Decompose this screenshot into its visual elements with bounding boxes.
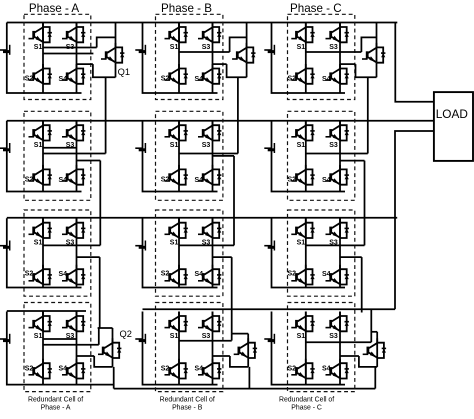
svg-text:S4: S4 [195,271,204,278]
IGBT S1 of cell C4 [291,312,314,332]
wire cell B2 input line [179,153,238,155]
svg-text:S3: S3 [202,333,211,340]
enclosure cell B3 (dashed box) [156,210,223,296]
wire bypass B4 collector lead [247,334,249,343]
IGBT S2 of cell C3 [291,265,314,285]
svg-text:S4: S4 [195,366,204,373]
enclosure cell A4 (dashed box) [24,303,91,392]
IGBT S4 of cell C3 [326,265,349,285]
wire bypass B4 collector bracket top [232,333,249,335]
wire bypass B4 emitter lead [247,358,249,367]
IGBT S2 of cell B1 [165,64,188,84]
battery VB1 (DC source) [135,45,145,55]
wire chain B3 to B4 (through row-4 rail) [231,257,233,334]
wire cell B3 right leg (S3-S4) [212,218,214,287]
svg-text:S1: S1 [34,240,43,247]
wire cell B1 left leg (S1-S2) [178,23,180,94]
wire cell A3 left rail + bottom rail [7,218,82,287]
wire cell B4 left leg (S1-S2) [178,312,180,385]
svg-text:S4: S4 [59,366,68,373]
IGBT S1 of cell B1 [165,23,188,43]
IGBT S3 of cell C2 [326,121,349,141]
svg-text:S4: S4 [322,76,331,83]
IGBT S1 of cell A3 [29,218,52,238]
wire cell B3 output line [213,256,232,258]
wire chain B1 to B2 [237,77,239,153]
bypass IGBT Q1 (phase A top) [101,43,124,63]
wire chain C1 to C2 [367,77,369,153]
wire cell B1 left rail + bottom rail [143,23,218,94]
wire cell C4 right leg (S3-S4) [339,312,341,385]
wire bypass C4 output to return bus [374,367,376,389]
LOAD box [434,92,473,161]
wire bypass A1 collector bracket [97,37,116,47]
IGBT S2 of cell C4 [291,359,314,379]
IGBT S3 of cell A1 [62,23,85,43]
svg-text:S1: S1 [170,142,179,149]
IGBT S4 of cell B1 [198,64,221,84]
svg-text:S2: S2 [25,76,34,83]
svg-text:S1: S1 [34,142,43,149]
wire cell C2 left rail + bottom rail [272,121,346,192]
wire chain C2 to C3 [364,161,366,246]
wire cell C2 right leg (S3-S4) [339,121,341,192]
IGBT S3 of cell B1 [198,23,221,43]
svg-text:S3: S3 [202,142,211,149]
svg-text:S2: S2 [25,365,34,372]
battery VC1 (DC source) [264,45,274,55]
wire row-1 top rail / phase-A output to LOAD [7,23,434,102]
IGBT S1 of cell C1 [291,23,314,43]
svg-text:S4: S4 [59,177,68,184]
wire bypass B1 collector bracket [230,37,247,52]
wire cell A1 left rail + bottom rail [7,23,82,94]
bypass IGBT (phase C top) [362,43,385,63]
wire bypass A1 emitter lead [115,63,117,78]
wire bypass A4 output to return bus [113,367,115,389]
svg-text:Q2: Q2 [120,329,132,339]
svg-text:S2: S2 [288,270,297,277]
wire bypass A1 collector drop from rail [115,23,117,48]
IGBT S1 of cell B4 [165,312,188,332]
bypass IGBT Q2 (phase A bottom) [98,338,121,358]
svg-text:Redundant Cell of: Redundant Cell of [279,396,334,403]
wire row-2 top rail / phase-B output to LOAD [7,120,434,122]
IGBT S4 of cell A1 [62,64,85,84]
wire cell A1 left leg (S1-S2) [42,23,44,94]
wire cell A1 right leg (S3-S4) [76,23,78,94]
wire bypass C1 collector drop from rail [376,23,378,48]
wire cell A2 left leg (S1-S2) [42,121,44,192]
IGBT S4 of cell C4 [326,359,349,379]
svg-text:S4: S4 [322,366,331,373]
svg-text:S2: S2 [25,270,34,277]
svg-text:S1: S1 [34,44,43,51]
IGBT S3 of cell C3 [326,218,349,238]
wire cell A1 mid line B [43,53,93,55]
enclosure cell C3 (dashed box) [288,210,355,296]
IGBT S2 of cell A2 [29,165,52,185]
svg-text:Redundant Cell of: Redundant Cell of [160,396,215,403]
bypass IGBT (phase B top) [232,43,255,63]
wire bypass B4 output to return bus [248,367,250,389]
svg-text:S2: S2 [161,177,170,184]
IGBT S3 of cell A4 [62,312,85,332]
battery VC4 (DC source) [264,334,274,344]
wire cell C4 mid rail to bypass collector [306,341,372,343]
svg-text:S3: S3 [329,333,338,340]
wire cell A3 left leg (S1-S2) [42,218,44,287]
battery VC2 (DC source) [264,143,274,153]
wire cell A3 input line [43,244,100,246]
wire cell C1 right leg (S3-S4) [339,23,341,94]
svg-text:S2: S2 [161,365,170,372]
svg-text:S4: S4 [195,177,204,184]
wire cell C4 left rail + bottom rail [272,312,346,385]
svg-text:S4: S4 [322,177,331,184]
IGBT S4 of cell A4 [62,359,85,379]
wire bypass C4 emitter lead [376,358,378,367]
enclosure cell C2 (dashed box) [288,111,355,200]
svg-text:S1: S1 [34,333,43,340]
svg-text:S1: S1 [170,44,179,51]
battery VA1 (DC source) [0,45,10,55]
wire cell C3 output line [340,256,362,258]
wire cell B4 left rail + bottom rail [143,312,218,385]
wire cell A2 mid rail [43,147,77,149]
wire chain C3 to C4 (to row-4 rail) [361,257,363,312]
wire cell A1 output line (S3/S4 node) [77,63,93,65]
wire cell C2 input line [306,153,368,155]
svg-text:S3: S3 [329,44,338,51]
svg-text:S2: S2 [161,76,170,83]
wire bypass C1 emitter lead [376,63,378,78]
wire cell A3 right leg (S3-S4) [76,218,78,287]
wire cell B2 left rail + bottom rail [143,121,218,192]
svg-text:Phase - C: Phase - C [290,2,342,15]
wire cell A4 left leg (S1-S2) [42,312,44,385]
enclosure cell A2 (dashed box) [24,111,91,200]
wire cell C1 output line (S3/S4 node) [340,63,356,65]
wire cell B4 right leg (S3-S4) [212,312,214,385]
enclosure cell B2 (dashed box) [156,111,223,200]
svg-text:Q1: Q1 [118,67,130,77]
wire cell B3 left leg (S1-S2) [178,218,180,287]
wire row-4 top rail (phases B-C) [143,308,396,310]
IGBT S2 of cell B2 [165,165,188,185]
wire cell B1 output line (S3/S4 node) [213,63,227,65]
wire cell C2 output line [340,160,365,162]
enclosure cell A1 (dashed box) [24,14,91,99]
svg-text:S1: S1 [297,142,306,149]
enclosure cell A3 (dashed box) [24,210,91,296]
wire cell C3 left rail + bottom rail [272,218,346,287]
wire cell A4 left rail + bottom rail [7,312,114,385]
svg-text:S4: S4 [59,271,68,278]
IGBT S2 of cell C2 [291,165,314,185]
wire bypass B1 collector drop from rail [246,23,248,48]
IGBT S3 of cell A3 [62,218,85,238]
svg-text:S3: S3 [202,44,211,51]
wire cell B4 mid rail to bypass collector [179,340,232,342]
svg-text:Phase - C: Phase - C [291,404,322,411]
wire cell A4 line to bypass collector [43,344,99,346]
battery VC3 (DC source) [264,241,274,251]
bypass IGBT (phase C bottom) [363,338,386,358]
wire chain A3 to A4 [99,257,101,328]
wire row-3 top rail [7,217,397,219]
IGBT S4 of cell B4 [198,359,221,379]
IGBT S2 of cell C1 [291,64,314,84]
wire cell B2 right leg (S3-S4) [212,121,214,192]
wire cell B4 line to bypass emitter [213,355,230,357]
IGBT S1 of cell A4 [29,312,52,332]
svg-text:S4: S4 [322,271,331,278]
svg-text:Redundant Cell of: Redundant Cell of [28,396,83,403]
IGBT S1 of cell C2 [291,121,314,141]
bypass IGBT (phase B bottom) [234,338,257,358]
svg-text:S4: S4 [195,76,204,83]
wire cell A2 left rail + bottom rail [7,121,82,192]
svg-text:S2: S2 [288,365,297,372]
enclosure cell B4 (dashed box) [156,303,223,392]
wire cell A2 output line [77,160,101,162]
svg-text:S1: S1 [297,44,306,51]
wire cell C1 left leg (S1-S2) [305,23,307,94]
svg-text:Phase - B: Phase - B [172,404,203,411]
IGBT S1 of cell C3 [291,218,314,238]
wire bottom return bus [114,388,376,390]
wire cell B3 input line [179,244,234,246]
wire bypass B4 emitter bracket [230,356,248,367]
wire cell C4 line to bypass emitter [340,355,359,357]
battery VA2 (DC source) [0,143,10,153]
svg-text:S1: S1 [297,333,306,340]
IGBT S4 of cell A3 [62,265,85,285]
wire chain A1 to A2 [105,77,107,153]
wire chain A2 to A3 [99,161,101,246]
svg-text:Phase - A: Phase - A [41,404,71,411]
battery VB3 (DC source) [135,241,145,251]
IGBT S4 of cell B2 [198,165,221,185]
wire cell C3 input line [306,244,365,246]
IGBT S1 of cell A2 [29,121,52,141]
svg-text:S3: S3 [329,142,338,149]
wire cell B2 left leg (S1-S2) [178,121,180,192]
wire bypass A1 emitter bracket [93,64,116,77]
wire cell C3 left leg (S1-S2) [305,218,307,287]
IGBT S4 of cell B3 [198,265,221,285]
IGBT S2 of cell B3 [165,265,188,285]
wire cell A4 mid rail [43,338,77,340]
svg-text:S1: S1 [170,240,179,247]
wire bypass A4 collector bracket top [98,327,113,329]
svg-text:S4: S4 [59,76,68,83]
wire bypass B1 emitter bracket [227,64,247,77]
wire cell A3 output line [77,256,100,258]
wire cell B2 output line [213,155,235,157]
IGBT S3 of cell C1 [326,23,349,43]
wire cell C4 left leg (S1-S2) [305,312,307,385]
svg-text:Phase - B: Phase - B [161,2,212,15]
IGBT S2 of cell B4 [165,359,188,379]
wire cell C1 left rail + bottom rail [272,23,346,94]
svg-text:S2: S2 [25,177,34,184]
wire bypass A4 collector bracket vert [98,328,100,345]
enclosure cell C4 (dashed box) [288,303,355,392]
wire bypass C1 emitter bracket [356,64,377,77]
svg-text:S1: S1 [297,240,306,247]
IGBT S3 of cell C4 [326,312,349,332]
svg-text:Phase - A: Phase - A [29,2,80,15]
IGBT S1 of cell B3 [165,218,188,238]
IGBT S2 of cell A3 [29,265,52,285]
battery VA3 (DC source) [0,241,10,251]
IGBT S3 of cell B3 [198,218,221,238]
wire bypass A4 emitter lead [112,358,114,367]
wire cell C2 left leg (S1-S2) [305,121,307,192]
svg-text:S2: S2 [161,270,170,277]
wire cell C3 right leg (S3-S4) [339,218,341,287]
wire cell A1 mid line (S1/S2 node to bypass) [43,47,97,49]
battery VB2 (DC source) [135,143,145,153]
wire bypass C1 collector bracket [361,37,376,52]
IGBT S3 of cell A2 [62,121,85,141]
IGBT S3 of cell B2 [198,121,221,141]
wire bypass A4 emitter bracket [94,356,112,367]
IGBT S2 of cell A1 [29,64,52,84]
wire bypass B4 collector bracket vert [231,334,233,341]
wire bypass C4 emitter bracket [359,356,377,367]
battery VA4 (DC source) [0,334,10,344]
wire row-4 top rail (phase A) [7,310,86,312]
wire cell C1 mid line (S1/S2 node to bypass) [306,51,362,53]
IGBT S4 of cell C2 [326,165,349,185]
IGBT S1 of cell A1 [29,23,52,43]
IGBT S3 of cell B4 [198,312,221,332]
IGBT S2 of cell A4 [29,359,52,379]
wire cell B3 left rail + bottom rail [143,218,218,287]
wire cell A4 line to bypass emitter [77,355,95,357]
wire phase-C output bus to LOAD [395,131,434,309]
svg-text:LOAD: LOAD [436,107,468,121]
enclosure cell C1 (dashed box) [288,14,355,99]
wire cell A2 right leg (S3-S4) [76,121,78,192]
wire bypass A4 collector lead [112,328,114,343]
wire cell A4 right leg (S3-S4) [76,312,78,385]
IGBT S4 of cell A2 [62,165,85,185]
enclosure cell B1 (dashed box) [156,14,223,99]
wire bypass C4 collector bracket top [371,331,377,333]
svg-text:S2: S2 [288,177,297,184]
wire chain B2 to B3 [233,156,235,246]
wire bypass C4 collector lead [376,332,378,343]
IGBT S4 of cell C1 [326,64,349,84]
wire cell B1 right leg (S3-S4) [212,23,214,94]
wire bypass C4 collector bracket vert from rail [370,309,372,342]
wire cell B1 mid line (S1/S2 node to bypass) [179,51,230,53]
IGBT S1 of cell B2 [165,121,188,141]
wire cell A2 input line [43,153,106,155]
svg-text:S1: S1 [170,333,179,340]
battery VB4 (DC source) [135,334,145,344]
svg-text:S2: S2 [288,76,297,83]
wire bypass B1 emitter lead [246,63,248,78]
